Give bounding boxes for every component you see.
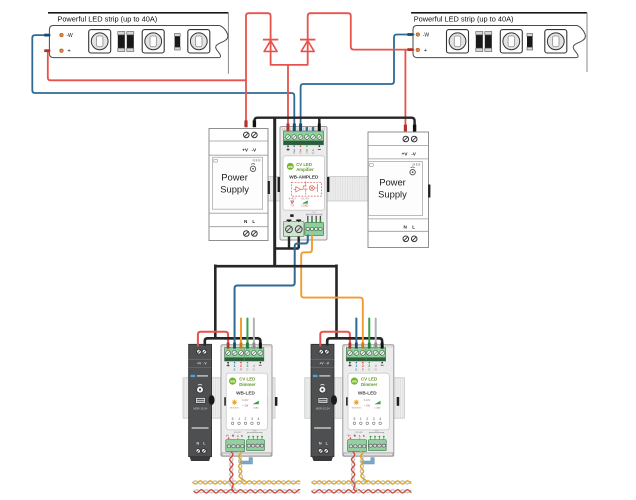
svg-text:−: − [318,147,322,153]
wire (black: horizontal bus between dimmer assemblies) [215,265,336,268]
DIN rail (right dimmer assembly) [305,378,405,418]
wire (blue: amplifier output 1 to left dimmer channel 1) [235,236,308,349]
svg-text:WB-AMPLED: WB-AMPLED [289,174,319,179]
wire (black bus drop to left dimmer assembly) [214,265,217,339]
power supply PS2 (right, Power Supply) [368,132,430,248]
wire (blue: left LED strip -W to amplifier input 1) [32,35,294,131]
wire (green stub, right dimmer channel 3) [368,319,370,349]
node (MDR +V -V screw terminals) [319,349,324,354]
svg-text:MDR-15-24: MDR-15-24 [193,406,207,410]
node (N L screw terminals) [244,231,250,237]
svg-text:-W: -W [423,32,430,38]
twisted pair bus (right, V+/GND red) [312,490,411,493]
wire (red: right LED strip + to diode D2 and right PSU +V) [308,13,414,131]
wire (orange stub, left dimmer channel 2) [240,319,242,349]
wire (black fork from amplifier input screws) [275,237,299,249]
dimmer U3 (right CV LED Dimmer WB-LED) [343,345,399,456]
terminal block (dimmer GND outputs) [368,440,386,451]
node (blue RS-485 connector clip, right dimmer) [362,458,374,464]
svg-text:wb: wb [287,165,293,169]
svg-text:3: 3 [251,417,253,421]
svg-text:LOAD: LOAD [301,204,308,208]
svg-text:L: L [412,225,415,230]
svg-text:+V: +V [197,361,202,365]
wire (red: right MDR +V to right dimmer plus terminal) [320,332,350,349]
terminal block (amplifier power input screws) [284,222,304,237]
svg-text:Dimmer: Dimmer [361,382,378,387]
svg-text:WB-LED: WB-LED [358,390,377,395]
wire (green stub, left dimmer channel 3) [246,319,248,349]
svg-text:< 1W: < 1W [364,404,370,407]
svg-text:V+: V+ [348,433,352,437]
wire (black bus drop to right dimmer assembly) [335,265,338,339]
svg-text:GND: GND [252,430,257,432]
svg-text:+V: +V [242,147,249,152]
svg-text:L: L [252,219,255,224]
svg-text:LOAD: LOAD [253,406,259,409]
svg-text:G: G [246,367,248,371]
diode D1 [263,39,278,52]
wire (red: riser to diode D1 and down to left PSU +V) [246,13,271,127]
svg-text:LOAD: LOAD [375,406,381,409]
terminal block (amplifier outputs + 1 2 3 4 -) [284,131,324,145]
svg-text:B: B [355,367,357,371]
svg-text:RS-485: RS-485 [356,432,364,434]
svg-text:MODBUS: MODBUS [230,407,240,409]
svg-text:Powerful LED strip (up to 40A): Powerful LED strip (up to 40A) [414,14,514,23]
terminal block (dimmer outputs + 1 2 3 4 -) [346,348,385,361]
svg-text:< 1W: < 1W [242,404,248,407]
svg-text:MODBUS: MODBUS [352,407,362,409]
wire (black: drop to amplifier minus terminal) [318,118,320,132]
svg-text:OUT: OUT [312,212,317,214]
svg-text:wb: wb [229,380,235,384]
svg-text:3: 3 [373,417,375,421]
svg-text:2: 2 [245,417,247,421]
svg-text:V+: V+ [226,433,230,437]
wire (orange: amplifier output 2 to right dimmer channel 2) [301,236,363,349]
svg-text:5: 5 [353,417,355,421]
node (MDR N L screw terminals) [196,449,201,454]
svg-text:N: N [197,442,200,446]
svg-text:MDR-15-24: MDR-15-24 [316,406,330,410]
node (blue RS-485 connector clip, left dimmer) [240,458,252,464]
svg-text:G: G [306,151,308,155]
svg-text:WB-LED: WB-LED [236,390,255,395]
svg-text:+V: +V [402,152,409,157]
svg-text:5: 5 [232,417,234,421]
LED strip LS2 (right, Powerful LED strip up to 40A) [411,13,587,72]
svg-text:+: + [348,363,352,369]
twisted pair (left dimmer RS-485 drop, yellow) [239,452,246,482]
wire (black: left PSU -V to right PSU -V common minus) [254,118,414,132]
node (+V -V screw terminals) [244,132,250,138]
svg-text:9-40V: 9-40V [364,399,371,402]
DIN rail (left dimmer assembly) [183,378,275,418]
svg-text:B: B [234,367,236,371]
wire (black: left MDR -V to left dimmer minus terminal) [205,338,261,348]
diode D2 [300,39,315,52]
svg-text:+V: +V [319,361,324,365]
svg-text:1: 1 [238,417,240,421]
node (MDR N L screw terminals) [318,449,323,454]
LED chips [447,30,469,53]
terminal block (dimmer outputs + 1 2 3 4 -) [225,348,264,361]
wire (gray stub, right dimmer channel 4) [375,319,377,349]
svg-text:Power: Power [379,176,406,187]
svg-text:Power: Power [221,172,248,183]
psu MDR PS4 (right MDR-15-24) [311,344,337,461]
svg-text:7 A: 7 A [290,204,294,208]
node (MDR +V -V screw terminals) [197,349,202,354]
dimmer U2 (left CV LED Dimmer WB-LED) [221,345,277,456]
svg-text:R: R [362,367,364,371]
wire (blue: right LED strip -W to amplifier input 2) [301,35,414,132]
svg-text:Dimmer: Dimmer [239,382,256,387]
LED chips [89,30,111,53]
svg-text:1: 1 [360,417,362,421]
power supply PS1 (left, Power Supply) [209,129,270,241]
node (strip terminals -W / +) [416,33,419,36]
svg-text:Ampifier: Ampifier [296,167,314,172]
DIN rail (middle, between power supplies and amplifier) [263,177,369,202]
node (+V -V screw terminals) [403,136,409,142]
svg-text:wb: wb [351,380,357,384]
wire (black over red crossing patch, left) [224,337,234,340]
svg-text:Supply: Supply [220,184,249,195]
svg-text:RS-485: RS-485 [234,432,242,434]
svg-text:R: R [300,151,302,155]
svg-text:4: 4 [379,417,381,421]
wire (red: left MDR +V to left dimmer plus terminal) [198,332,228,349]
op-amp module U1 (CV LED Amplifier WB-AMPLED) [278,127,330,241]
terminal block (dimmer GND outputs) [247,440,265,451]
svg-text:9-40V: 9-40V [289,197,296,201]
resistors [476,32,483,52]
wire (black over red crossing patch, right) [346,337,356,340]
svg-text:4: 4 [257,417,259,421]
svg-text:N: N [319,442,322,446]
svg-text:W: W [312,151,315,155]
twisted pair (left dimmer power drop, red) [230,452,236,491]
node (strip terminals -W / +) [60,33,63,36]
twisted pair (right dimmer RS-485 drop, yellow) [360,452,367,482]
svg-text:Powerful LED strip (up to 40A): Powerful LED strip (up to 40A) [57,14,157,23]
twisted pair bus (right, A/B yellow) [312,481,411,484]
svg-text:Supply: Supply [378,188,407,199]
wire (black: main vertical along amplifier) [273,118,276,267]
wire (gray stub, left dimmer channel 4) [253,319,255,349]
LED strip LS1 (left, Powerful LED strip up to 40A) [48,13,228,74]
wire (red: diode outputs junction to amplifier +) [271,51,308,131]
svg-text:R: R [240,367,242,371]
svg-text:G: G [368,367,370,371]
wire (blue stub, right dimmer channel 1) [355,319,357,349]
svg-text:GND: GND [374,430,379,432]
svg-text:+: + [286,147,290,153]
svg-text:9-40V: 9-40V [242,399,249,402]
svg-text:B: B [293,151,295,155]
twisted pair (right dimmer power drop, red) [352,452,358,491]
twisted pair bus (left, A/B yellow) [193,481,300,484]
svg-text:−: − [380,363,384,369]
resistors [118,32,125,52]
svg-text:-W: -W [66,33,73,39]
svg-text:2: 2 [366,417,368,421]
node (N L screw terminals) [403,236,409,242]
terminal block (dimmer V+ / RS-485 A B) [226,440,245,452]
wire (red: left LED strip + down-right to junction) [44,51,246,81]
terminal block (amplifier control input 4-pole) [305,223,324,236]
svg-text:AC 4A: AC 4A [301,197,309,201]
terminal block (dimmer V+ / RS-485 A B) [348,440,367,452]
twisted pair bus (left, V+/GND red) [194,490,300,493]
wire (black: right MDR -V to right dimmer minus terminal) [327,338,382,348]
psu MDR PS3 (left MDR-15-24) [189,344,215,461]
